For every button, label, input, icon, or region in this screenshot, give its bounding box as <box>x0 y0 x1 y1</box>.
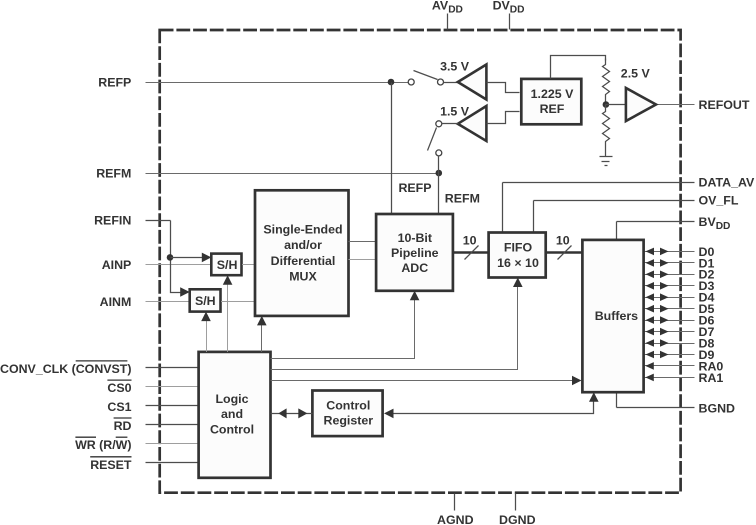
pin AVDD <box>432 0 463 30</box>
pin RA0 <box>644 359 724 373</box>
svg-text:10: 10 <box>463 234 477 248</box>
switch SW1 (REFP to 3.5V) <box>408 71 458 86</box>
svg-text:S/H: S/H <box>217 258 238 272</box>
svg-text:ADC: ADC <box>401 261 428 275</box>
block S/H 1 <box>211 254 241 276</box>
svg-text:CS0: CS0 <box>107 381 131 395</box>
node: REFP junction dot <box>388 79 395 86</box>
block S/H 2 <box>190 289 221 311</box>
block FIFO <box>489 233 546 278</box>
svg-text:DGND: DGND <box>499 513 536 525</box>
svg-text:and: and <box>221 407 243 421</box>
svg-text:DD: DD <box>716 221 731 232</box>
wire logic to FIFO control <box>271 287 518 370</box>
svg-text:2.5 V: 2.5 V <box>621 66 651 80</box>
svg-text:MUX: MUX <box>289 269 317 283</box>
arrow into S/H2 <box>180 287 190 297</box>
wire logic to MUX control <box>261 325 263 352</box>
wire logic to S/H2 control <box>206 321 208 352</box>
svg-text:Pipeline: Pipeline <box>391 246 439 260</box>
wire logic to ADC control <box>271 300 415 359</box>
svg-text:DATA_AV: DATA_AV <box>699 176 755 190</box>
block MUX <box>255 190 349 316</box>
pin OV_FL <box>534 193 739 232</box>
svg-text:BGND: BGND <box>699 401 736 415</box>
bus FIFO to Buffers <box>546 251 583 254</box>
svg-text:Control: Control <box>210 422 254 436</box>
pin AGND <box>437 494 474 525</box>
pin BVDD <box>617 215 731 241</box>
wire REF box top to resistor <box>551 56 606 79</box>
svg-text:REFM: REFM <box>96 166 131 180</box>
pin RD <box>114 418 199 433</box>
svg-text:S/H: S/H <box>195 294 216 308</box>
amp 2.5V output buffer <box>606 66 657 121</box>
pin REFIN <box>94 213 170 227</box>
pin DATA_AV <box>503 176 755 233</box>
svg-text:CS1: CS1 <box>107 400 131 414</box>
svg-text:DD: DD <box>448 4 463 15</box>
pin D2 <box>644 268 715 282</box>
block U1: 1.225 V REF <box>521 79 581 124</box>
svg-text:and/or: and/or <box>284 238 322 252</box>
svg-text:REFIN: REFIN <box>94 213 131 227</box>
amp 1.5V buffer <box>440 104 519 141</box>
pin AINP <box>102 258 212 272</box>
svg-text:FIFO: FIFO <box>504 240 533 254</box>
wire REFP down to ADC <box>391 83 393 215</box>
svg-text:Register: Register <box>324 414 374 428</box>
svg-text:3.5 V: 3.5 V <box>440 59 470 73</box>
pin D1 <box>644 256 715 270</box>
wire MUX to ADC upper <box>349 241 377 243</box>
svg-text:10-Bit: 10-Bit <box>398 231 432 245</box>
svg-text:RA1: RA1 <box>699 371 724 385</box>
wire REFIN branch to S/H1 <box>171 257 204 259</box>
pin D0 <box>644 245 715 259</box>
node: divider junction dot <box>603 101 610 108</box>
wire logic to control register (bidirectional) <box>271 413 313 415</box>
svg-text:CONV_CLK (CONVST): CONV_CLK (CONVST) <box>0 362 131 376</box>
wire REFIN path <box>171 221 182 293</box>
wire control register to Buffers <box>389 401 594 414</box>
resistor R1 <box>603 59 610 102</box>
svg-text:DV: DV <box>493 0 511 13</box>
block ADC <box>376 214 453 291</box>
pin CS1 <box>107 400 198 414</box>
svg-text:REFP: REFP <box>398 181 431 195</box>
wire MUX to ADC lower <box>349 259 377 261</box>
svg-text:Logic: Logic <box>215 392 248 406</box>
svg-text:BV: BV <box>699 215 717 229</box>
svg-text:RESET: RESET <box>90 458 132 472</box>
pin CONV_CLK (CONVST) <box>0 361 198 376</box>
bus ADC to FIFO <box>453 251 489 254</box>
pin REFP <box>98 75 408 89</box>
pin BGND <box>617 393 736 416</box>
svg-text:REF: REF <box>540 102 565 116</box>
pin DVDD <box>493 0 525 30</box>
node: REFM junction dot <box>436 170 443 177</box>
svg-text:RD: RD <box>114 419 132 433</box>
pin REFM <box>96 166 438 180</box>
svg-text:REFP: REFP <box>98 75 131 89</box>
pin DGND <box>499 494 536 525</box>
pin D8 <box>644 336 715 350</box>
wire logic to S/H1 control <box>227 284 229 352</box>
wire S/H2 to MUX <box>221 301 256 303</box>
pin WR (R/W) <box>75 437 198 452</box>
resistor R2 <box>603 105 610 149</box>
pin D3 <box>644 279 715 293</box>
pin D4 <box>644 291 715 305</box>
svg-text:1.5 V: 1.5 V <box>440 104 470 118</box>
pin D7 <box>644 325 715 339</box>
wire logic to Buffers control <box>271 380 574 382</box>
pin RA1 <box>644 371 724 385</box>
svg-text:WR (R/W): WR (R/W) <box>75 438 131 452</box>
wire S/H1 to MUX <box>242 264 256 266</box>
amp 3.5V buffer <box>440 59 519 99</box>
pin AINM <box>100 295 191 309</box>
svg-text:1.225 V: 1.225 V <box>531 87 574 101</box>
pin D6 <box>644 314 715 328</box>
bus slash 2 <box>558 246 572 260</box>
svg-text:Differential: Differential <box>271 254 336 268</box>
pin RESET <box>90 457 198 472</box>
block Logic and Control <box>199 352 271 478</box>
pin D5 <box>644 302 715 316</box>
pin D9 <box>644 348 715 362</box>
svg-text:AGND: AGND <box>437 513 474 525</box>
svg-text:Control: Control <box>326 398 370 412</box>
block Control Register <box>312 391 382 437</box>
wire REFM down to ADC <box>438 174 440 215</box>
svg-text:AINP: AINP <box>102 258 132 272</box>
svg-text:16 × 10: 16 × 10 <box>497 256 539 270</box>
svg-text:DD: DD <box>510 4 525 15</box>
svg-text:Single-Ended: Single-Ended <box>263 223 342 237</box>
pin CS0 <box>107 380 198 395</box>
svg-text:10: 10 <box>556 234 570 248</box>
svg-text:AINM: AINM <box>100 295 132 309</box>
svg-text:REFM: REFM <box>445 191 480 205</box>
bus slash 1 <box>465 246 479 260</box>
svg-text:OV_FL: OV_FL <box>699 193 739 207</box>
block Buffers <box>582 240 643 392</box>
svg-text:AV: AV <box>432 0 449 13</box>
svg-text:Buffers: Buffers <box>595 309 638 323</box>
dashed chip boundary <box>160 30 681 493</box>
svg-text:REFOUT: REFOUT <box>699 98 750 112</box>
switch SW2 (REFM to 1.5V) <box>428 121 442 174</box>
pin REFOUT <box>657 98 750 112</box>
ground <box>600 149 613 166</box>
node: REFIN junction dot <box>167 254 174 261</box>
